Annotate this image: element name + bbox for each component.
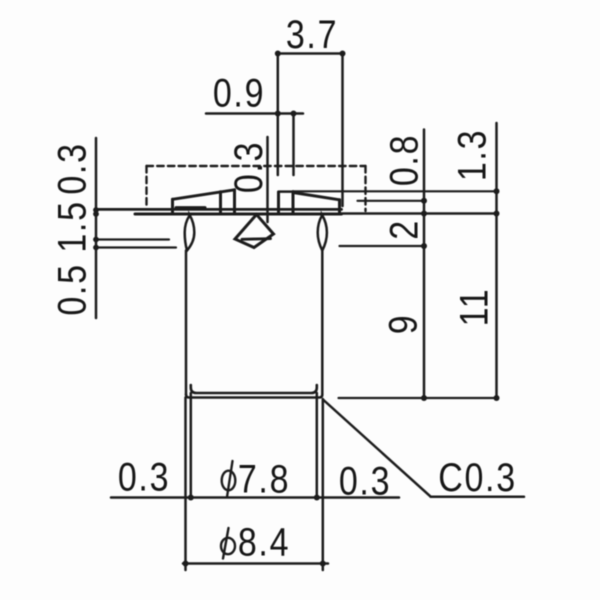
svg-text:2: 2 (381, 219, 426, 240)
left dimension line vertical (95, 138, 98, 318)
svg-text:0.9: 0.9 (213, 70, 265, 115)
phi7.8 tick dots (188, 495, 194, 501)
hidden panel hole dashed rectangle top edge (147, 165, 366, 167)
left latch tab inner step line (176, 206, 205, 209)
right latch tab top slant (293, 193, 340, 200)
dim vertical line x=424 (0.8 / 2 / 9) (423, 130, 426, 399)
svg-text:0.3: 0.3 (339, 458, 391, 503)
dim text phi7.8 diameter symbol (222, 471, 236, 491)
left tick dots (93, 207, 99, 213)
left latch tab fold line (219, 192, 222, 213)
left latch tab top slant (173, 190, 235, 200)
dim 0.9 end dots (275, 111, 281, 117)
right extension line y=246 (340, 245, 425, 247)
dim 3.7 dimension line (278, 52, 343, 55)
phi7.8 dimension line (111, 496, 399, 499)
right latch tab outer edge (338, 200, 341, 213)
dim text phi8.4 diameter symbol (221, 538, 235, 554)
right baseline extension (342, 212, 498, 215)
C0.3 leader diagonal (324, 400, 431, 497)
svg-text:11: 11 (451, 288, 496, 327)
phi8.4 dimension line (183, 562, 328, 565)
flange top surface line + left extension (96, 208, 342, 211)
svg-text:0.3: 0.3 (49, 142, 94, 194)
right latch tab fold line (292, 192, 295, 213)
hidden dashed left edge (145, 166, 147, 208)
left extension line y=247.5 (diamond tip) (96, 246, 176, 248)
cup right outer wall (321, 251, 324, 395)
svg-text:1.5: 1.5 (49, 200, 94, 252)
right extension line y=191.3 (tab top) (293, 190, 497, 192)
left latch tab inner edge (233, 190, 236, 213)
svg-text:0.5: 0.5 (49, 263, 94, 315)
phi7.8 right extension (316, 393, 319, 498)
dim 0.9 right extension (292, 114, 295, 176)
hidden dashed right edge (364, 166, 366, 211)
flange bottom surface line + left extension (135, 213, 342, 216)
svg-text:7.8: 7.8 (238, 456, 290, 501)
left latch tab outer edge (171, 199, 174, 213)
dim 0.9 dimension line (206, 112, 303, 115)
dim 3.7 left extension (shared with 0.9) (277, 54, 280, 176)
svg-text:3.7: 3.7 (286, 11, 338, 56)
dim 3.7 end dots (275, 51, 281, 57)
phi8.4 left extension (184, 398, 187, 571)
svg-text:8.4: 8.4 (238, 519, 290, 564)
svg-text:1.3: 1.3 (449, 129, 494, 181)
left extension line y=239.5 (diamond widest) (96, 238, 169, 240)
phi8.4 right extension (322, 399, 325, 570)
center contact diamond (235, 215, 274, 248)
bottom extension line y=398 (339, 397, 497, 399)
dim 3.7 right extension (341, 54, 344, 207)
dim 0.3 center vertical dimension line (266, 137, 269, 222)
svg-text:0.8: 0.8 (381, 134, 426, 186)
right extension line y=200.8 (tab outer top) (358, 200, 425, 202)
svg-text:9: 9 (380, 314, 425, 335)
center contact diamond chord (242, 237, 271, 240)
phi8.4 tick dots (183, 561, 189, 567)
right latch tab inner edge (277, 192, 280, 213)
right tick dots (421, 198, 427, 204)
dim vertical line x=496.5 (1.3 / 11) (495, 123, 498, 398)
cup left outer wall (185, 251, 188, 395)
cup inner bottom with rounded corners (191, 385, 317, 393)
svg-text:0.3: 0.3 (118, 454, 170, 499)
right latch tab post top (279, 190, 294, 193)
cup outer bottom (186, 395, 322, 398)
right barb leaf (318, 215, 327, 251)
phi7.8 left extension (inner wall stub) (190, 393, 193, 498)
svg-text:C0.3: C0.3 (438, 454, 517, 499)
left barb leaf (185, 215, 195, 251)
C0.3 leader horizontal (431, 495, 524, 498)
